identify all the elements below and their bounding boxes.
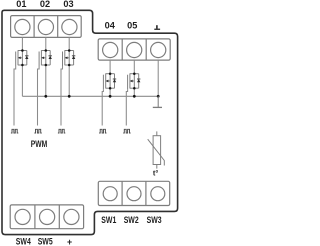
svg-text:SW3: SW3 xyxy=(147,215,162,225)
svg-text:04: 04 xyxy=(105,20,116,30)
wire O4 source to bus xyxy=(109,88,111,96)
wire O5 drain xyxy=(133,60,135,74)
wire O3 drain xyxy=(68,37,70,50)
wire gate Q5 to PWM xyxy=(126,89,127,125)
wire O4 drain xyxy=(109,60,111,74)
svg-text:SW4: SW4 xyxy=(16,237,31,246)
PWM icon 2 xyxy=(34,129,41,133)
wire ground bus xyxy=(22,95,158,97)
thermistor RT1 xyxy=(148,131,165,168)
terminal block SW4-SW5-plus xyxy=(10,205,83,229)
wire gate Q3 to PWM xyxy=(61,66,63,126)
svg-text:02: 02 xyxy=(40,0,50,9)
terminal block SW1-SW3 xyxy=(98,181,169,205)
svg-text:SW5: SW5 xyxy=(38,237,53,246)
PWM icon 4 xyxy=(99,129,106,133)
wire earth terminal riser xyxy=(157,60,159,96)
transistor Q4 (O4) xyxy=(103,72,116,89)
svg-text:t°: t° xyxy=(153,169,158,178)
wire O2 source to bus xyxy=(45,65,47,96)
terminal block O1-O3 xyxy=(11,16,82,38)
transistor Q1 (O1) xyxy=(16,49,29,66)
svg-text:03: 03 xyxy=(63,0,73,9)
svg-text:05: 05 xyxy=(127,20,137,30)
PWM icon 5 xyxy=(123,129,130,133)
wire O1 drain xyxy=(21,37,23,50)
svg-text:PWM: PWM xyxy=(31,139,48,149)
wire gate Q1 to PWM xyxy=(14,66,16,126)
transistor Q5 (O5) xyxy=(128,72,141,89)
svg-text:SW1: SW1 xyxy=(101,215,116,225)
transistor Q2 (O2) xyxy=(39,49,52,66)
terminal block O4-O5-earth xyxy=(98,39,170,60)
svg-text:+: + xyxy=(67,237,72,246)
ground symbol xyxy=(153,96,162,107)
wire gate Q2 to PWM xyxy=(38,66,40,126)
svg-text:01: 01 xyxy=(16,0,26,9)
wire O3 source to bus xyxy=(68,65,70,96)
wire O1 source to bus xyxy=(21,65,23,96)
wire gate Q4 to PWM xyxy=(102,89,103,125)
junction dots on bus xyxy=(44,95,159,98)
svg-text:SW2: SW2 xyxy=(124,215,139,225)
PWM icon 3 xyxy=(58,129,65,133)
earth label icon xyxy=(154,25,160,30)
module outline xyxy=(2,10,178,234)
wires xyxy=(14,37,158,125)
wire O2 drain xyxy=(45,37,47,50)
PWM icon 1 xyxy=(11,129,18,133)
wire O5 source to bus xyxy=(133,88,135,96)
transistor Q3 (O3) xyxy=(63,49,76,66)
